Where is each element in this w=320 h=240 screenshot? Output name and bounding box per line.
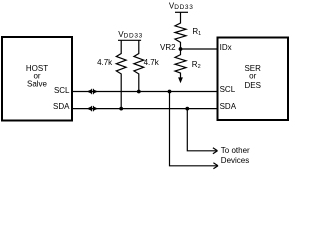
svg-text:or: or: [249, 72, 256, 81]
svg-text:SCL: SCL: [220, 85, 236, 94]
svg-text:DES: DES: [244, 81, 260, 90]
svg-text:R2: R2: [192, 60, 201, 70]
svg-text:Devices: Devices: [221, 156, 249, 165]
svg-text:4.7k: 4.7k: [144, 58, 160, 67]
svg-text:VR2: VR2: [160, 43, 176, 52]
svg-text:Salve: Salve: [27, 80, 48, 89]
svg-text:SDA: SDA: [53, 102, 70, 111]
svg-text:VDD33: VDD33: [169, 1, 194, 11]
svg-text:R1: R1: [192, 27, 201, 37]
svg-text:4.7k: 4.7k: [97, 58, 113, 67]
svg-text:To other: To other: [221, 146, 250, 155]
svg-text:IDx: IDx: [220, 43, 232, 52]
svg-text:SDA: SDA: [220, 102, 237, 111]
svg-text:SCL: SCL: [54, 86, 70, 95]
svg-text:VDD33: VDD33: [118, 30, 143, 40]
